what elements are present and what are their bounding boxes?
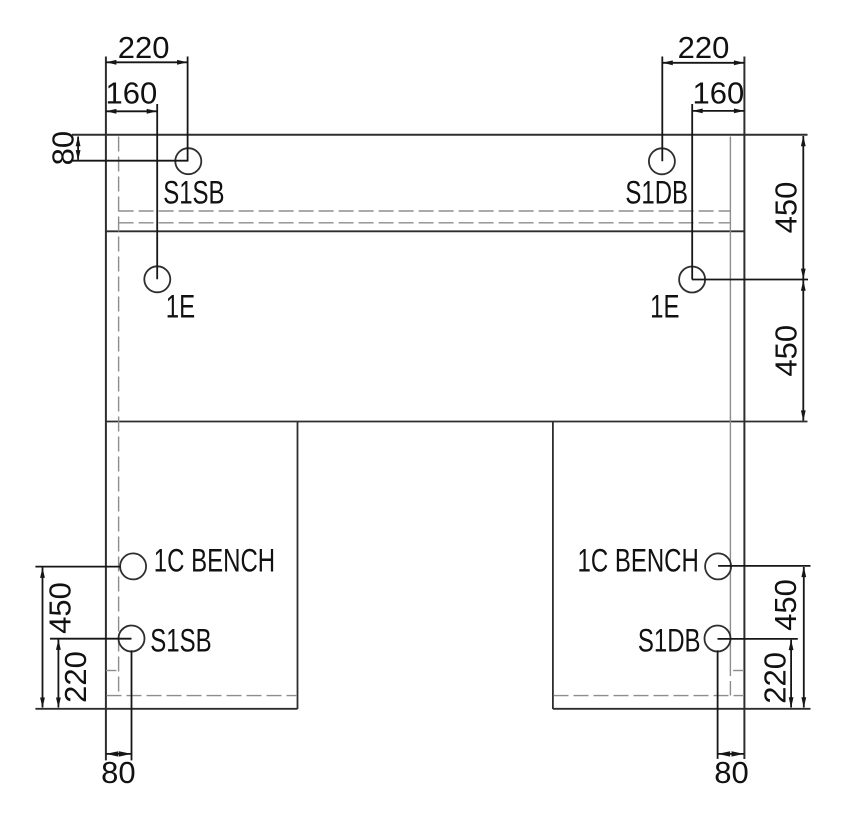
left leg bottom edge with left extension	[35, 708, 297, 710]
hole S1DB top-right	[649, 148, 675, 174]
svg-text:80: 80	[45, 131, 80, 165]
hole S1SB top-left	[175, 148, 201, 174]
dim 450 bottom-left line	[42, 568, 44, 708]
dim 220 top-right extension to hole	[661, 57, 663, 162]
svg-text:S1DB: S1DB	[638, 622, 701, 658]
svg-text:450: 450	[42, 582, 77, 634]
dim extension 1C left	[35, 566, 120, 568]
right leg left edge	[552, 422, 554, 710]
svg-text:160: 160	[693, 75, 745, 110]
dim 220 top-right line	[662, 62, 744, 64]
dim 160 top-left extension to hole	[156, 104, 158, 279]
hidden line right inner vertical	[729, 137, 731, 677]
dim 80 top-left arrow line	[77, 137, 79, 160]
left edge with top/bottom extension	[105, 57, 107, 761]
right edge with top/bottom extension	[743, 57, 745, 760]
dim 220 bottom-left line	[57, 640, 59, 708]
worktop bottom line with right extension	[106, 421, 808, 423]
svg-text:S1DB: S1DB	[625, 174, 688, 210]
top edge with left/right extension	[72, 134, 808, 136]
left leg tick mark	[106, 670, 117, 672]
hole 1E right	[679, 267, 705, 293]
hole 1C BENCH right	[705, 553, 731, 579]
hidden line left inner vertical	[118, 137, 120, 696]
hidden line left leg bottom	[107, 695, 298, 697]
dim 160 top-left line	[106, 110, 157, 112]
hole 1E left	[144, 266, 170, 292]
dim 450 right lower line	[802, 280, 804, 421]
dim 80 bottom-right line	[718, 753, 744, 755]
svg-text:1C BENCH: 1C BENCH	[578, 542, 699, 578]
dim 160 top-right line	[692, 110, 744, 112]
top rail bottom line	[106, 230, 744, 232]
svg-text:S1SB: S1SB	[150, 622, 211, 658]
left leg right edge	[297, 422, 299, 710]
dim extension S1DB bottom-right	[718, 638, 798, 640]
dim 80 bottom-right hole extension	[717, 650, 719, 759]
svg-text:450: 450	[769, 182, 804, 234]
svg-text:450: 450	[769, 325, 804, 377]
dim extension S1SB bottom-left	[50, 638, 132, 640]
svg-text:220: 220	[58, 651, 93, 703]
svg-text:220: 220	[118, 30, 170, 65]
dim 80 bottom-left line	[106, 753, 132, 755]
dim 220 bottom-right line	[790, 640, 792, 708]
dim 450 right upper line	[802, 136, 804, 280]
dim 80 bottom-left hole extension	[131, 650, 133, 760]
dim 80 top-left extension line	[72, 160, 188, 162]
hidden line rail band upper	[119, 210, 731, 212]
hole S1DB bottom-right	[705, 626, 731, 652]
hole 1C BENCH left	[120, 553, 146, 579]
dim 450 bottom-right line	[803, 567, 805, 708]
svg-text:160: 160	[106, 75, 158, 110]
dim 220 top-left line	[106, 61, 188, 63]
hidden line right leg bottom	[554, 695, 745, 697]
svg-text:80: 80	[714, 755, 748, 790]
hole S1SB bottom-left	[119, 626, 145, 652]
svg-text:1E: 1E	[650, 288, 679, 324]
svg-text:1E: 1E	[166, 288, 195, 324]
right leg bottom edge with right extension	[553, 708, 811, 710]
dim extension 1C right	[718, 565, 810, 567]
dim 160 top-right extension to hole	[691, 104, 693, 280]
svg-text:S1SB: S1SB	[163, 174, 224, 210]
svg-text:220: 220	[757, 652, 792, 704]
svg-text:80: 80	[101, 755, 135, 790]
right leg tick mark	[733, 670, 744, 672]
svg-text:1C BENCH: 1C BENCH	[154, 542, 275, 578]
svg-text:450: 450	[768, 579, 803, 631]
dim extension 1E right to margin	[692, 279, 808, 281]
dim 220 top-left extension to hole	[187, 57, 189, 162]
hidden line rail band lower	[119, 222, 731, 224]
svg-text:220: 220	[678, 30, 730, 65]
